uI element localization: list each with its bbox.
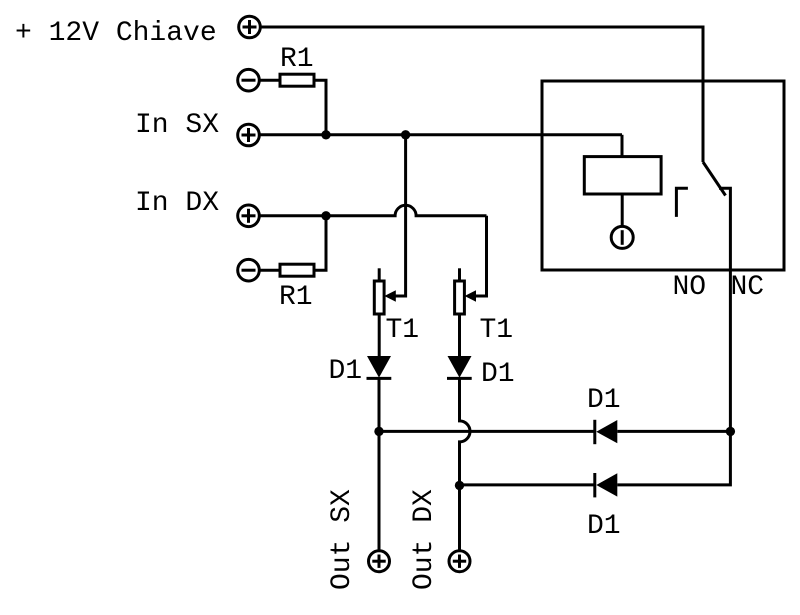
label D1 (right) bbox=[481, 359, 515, 390]
wire R1 top to corner bbox=[314, 80, 326, 135]
terminal Out SX (circled plus) bbox=[369, 551, 390, 572]
wire D1 upper to NC junction bbox=[617, 430, 730, 433]
terminal +12V (circled plus) bbox=[239, 16, 261, 38]
label In SX bbox=[135, 110, 219, 141]
wire In SX horizontal to relay coil bbox=[259, 133, 622, 136]
label In DX bbox=[135, 188, 219, 219]
wire D1 left down to Out SX bbox=[378, 378, 381, 550]
junction dot In SX / T1 branch bbox=[401, 130, 410, 139]
wire down to relay coil bbox=[621, 135, 624, 157]
junction dot Out SX node bbox=[374, 427, 383, 436]
label Out DX (rotated) bbox=[409, 489, 440, 590]
terminal minus (bottom R1) bbox=[238, 259, 260, 281]
relay coil bbox=[584, 157, 661, 194]
svg-text:T1: T1 bbox=[386, 315, 420, 346]
wire coil to coil terminal bbox=[621, 194, 624, 227]
svg-text:In SX: In SX bbox=[135, 110, 219, 141]
wire In DX down to T1 right gate bbox=[471, 216, 487, 296]
wire In DX horizontal with hop over T1-left branch bbox=[259, 205, 486, 216]
svg-text:T1: T1 bbox=[480, 315, 514, 346]
wire Out SX node horizontal to D1 upper bbox=[379, 430, 595, 433]
transistor T1 right (box) bbox=[455, 268, 465, 314]
svg-text:NO: NO bbox=[673, 272, 707, 303]
transistor T1 left (box) bbox=[374, 268, 384, 314]
diode D1 upper (left-pointing) bbox=[595, 420, 618, 444]
svg-text:D1: D1 bbox=[587, 385, 621, 416]
svg-text:In DX: In DX bbox=[135, 188, 219, 219]
relay switch blade bbox=[703, 162, 726, 196]
terminal Out DX (circled plus) bbox=[449, 551, 470, 572]
resistor R1 (top) bbox=[280, 74, 314, 86]
arrow into T1 left bbox=[384, 290, 396, 301]
label D1 (left) bbox=[329, 356, 363, 387]
svg-text:R1: R1 bbox=[280, 44, 314, 75]
diode D1 right (down) bbox=[447, 356, 472, 378]
resistor R1 (bottom) bbox=[280, 264, 314, 276]
wire +12V down to switch pivot bbox=[702, 26, 705, 163]
label R1 (bottom) bbox=[279, 282, 313, 313]
svg-text:R1: R1 bbox=[279, 282, 313, 313]
diode D1 lower (left-pointing) bbox=[595, 473, 618, 497]
diode D1 left (down) bbox=[367, 356, 392, 378]
label D1 (lower) bbox=[587, 511, 621, 542]
NC contact bbox=[719, 188, 730, 431]
svg-text:D1: D1 bbox=[481, 359, 515, 390]
relay coil terminal (circled bar) bbox=[611, 226, 633, 248]
svg-text:Out DX: Out DX bbox=[409, 489, 440, 590]
junction dot In SX / R1 bbox=[321, 130, 330, 139]
NO contact bbox=[676, 188, 688, 217]
svg-text:Out SX: Out SX bbox=[327, 489, 358, 590]
label + 12V Chiave bbox=[15, 18, 217, 49]
terminal In DX (circled plus) bbox=[238, 205, 260, 227]
wire In SX branch down to T1 left gate bbox=[390, 135, 406, 296]
svg-text:D1: D1 bbox=[329, 356, 363, 387]
terminal In SX (circled plus) bbox=[238, 124, 260, 146]
wire minus to R1 bottom bbox=[259, 269, 281, 272]
wire T1 right to D1 right bbox=[458, 314, 461, 356]
wire +12V top horizontal bbox=[260, 26, 703, 29]
svg-text:NC: NC bbox=[731, 272, 765, 303]
wire D1 right down with hop over Out SX node wire bbox=[460, 378, 471, 550]
junction dot Out DX node bbox=[455, 481, 464, 490]
label T1 (right) bbox=[480, 315, 514, 346]
relay box bbox=[542, 81, 784, 270]
label NO bbox=[673, 272, 707, 303]
label Out SX (rotated) bbox=[327, 489, 358, 590]
terminal minus (top R1) bbox=[238, 69, 260, 91]
wire NC node down and left to D1 lower bbox=[617, 431, 730, 485]
svg-text:D1: D1 bbox=[587, 511, 621, 542]
label T1 (left) bbox=[386, 315, 420, 346]
label D1 (upper) bbox=[587, 385, 621, 416]
junction dot NC node bbox=[726, 427, 735, 436]
svg-text:+ 12V Chiave: + 12V Chiave bbox=[15, 18, 217, 49]
wire R1 bottom up to In DX junction bbox=[314, 216, 326, 270]
junction dot In DX / R1 bottom bbox=[321, 211, 330, 220]
label R1 (top) bbox=[280, 44, 314, 75]
wire minus to R1 top bbox=[259, 79, 281, 82]
label NC bbox=[731, 272, 765, 303]
wire T1 left to D1 left bbox=[378, 314, 381, 356]
arrow into T1 right bbox=[465, 290, 476, 301]
wire D1 lower to Out DX node bbox=[460, 483, 595, 486]
